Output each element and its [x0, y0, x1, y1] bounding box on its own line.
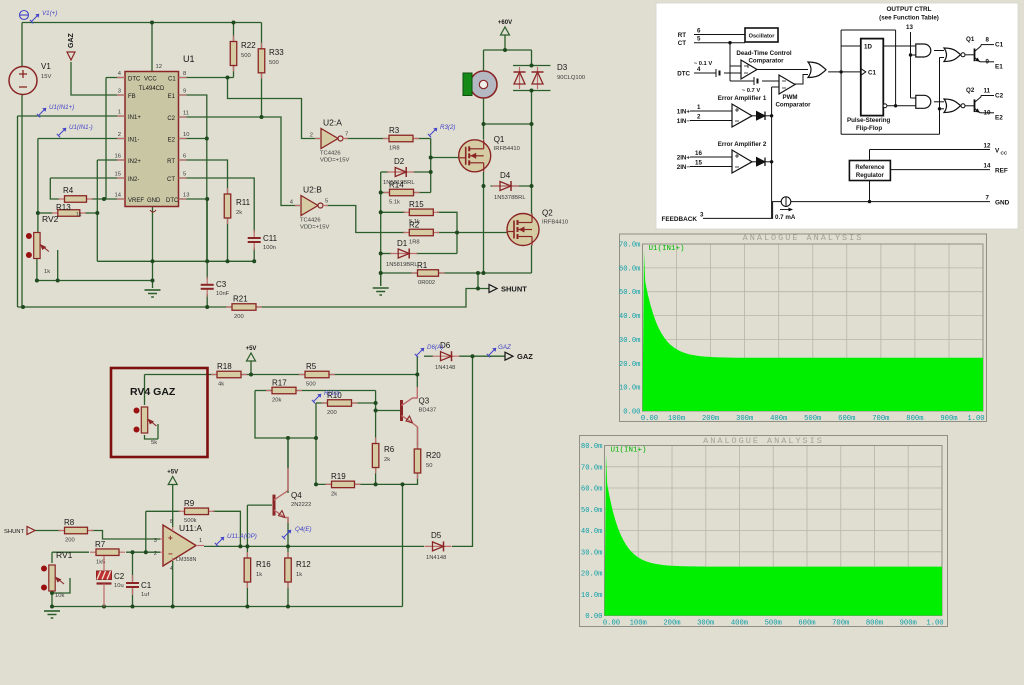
diode D5 [425, 531, 452, 561]
wire Q4 base [247, 504, 272, 506]
wire to NOR1 lower input [940, 57, 945, 59]
svg-text:R2: R2 [409, 221, 420, 230]
wire Q3 emitter link [413, 423, 418, 445]
diode D3 left [514, 67, 526, 89]
svg-text:2: 2 [154, 551, 157, 557]
wire bottom loop [841, 133, 939, 135]
svg-text:+60V: +60V [498, 20, 512, 26]
svg-text:U11:A: U11:A [179, 523, 202, 533]
junction gnd rail R11 [226, 259, 230, 263]
battery ~0.1V [694, 61, 720, 77]
diode D2 [383, 157, 415, 186]
svg-text:R22: R22 [241, 41, 256, 50]
wire Q1 emitter pin 9 [980, 61, 994, 63]
resistor R14 [384, 181, 420, 206]
resistor R9 [179, 499, 215, 524]
wire R6 bottom lead [375, 468, 377, 485]
wire NOR1 to Q1 base [965, 54, 975, 56]
svg-text:Q3: Q3 [419, 397, 430, 406]
svg-text:C2: C2 [167, 116, 175, 122]
svg-text:FEEDBACK: FEEDBACK [661, 216, 697, 223]
svg-text:DTC: DTC [128, 76, 141, 82]
svg-text:1k: 1k [44, 269, 50, 275]
probe label U11.A(OP) [215, 533, 257, 546]
svg-text:ANALOGUE ANALYSIS: ANALOGUE ANALYSIS [703, 436, 824, 446]
wire RV1 wiper strap [52, 578, 70, 593]
ground bottom left [44, 611, 60, 618]
IC U1 TL494CD body [125, 54, 195, 207]
svg-text:200: 200 [65, 538, 75, 544]
svg-text:50: 50 [426, 463, 432, 469]
svg-text:CC: CC [1001, 151, 1008, 156]
ground below U1 [145, 290, 161, 297]
wire diode1 to bus [765, 115, 772, 117]
svg-text:12: 12 [984, 143, 991, 150]
svg-text:13: 13 [183, 193, 189, 199]
wire 2IN+ line [690, 156, 732, 158]
dead-time control comparator [741, 60, 757, 79]
svg-text:2k: 2k [384, 457, 390, 463]
capacitor C1 [126, 575, 152, 598]
junction R9 output node [238, 544, 242, 548]
junction Q3 base node [374, 409, 378, 413]
wire oscillator output down [729, 43, 731, 81]
junction C1 bottom rail [131, 605, 135, 609]
reference regulator box [849, 161, 890, 181]
wire OR out to FF clock [828, 71, 861, 73]
resistor R5 [299, 362, 335, 388]
svg-text:1N5819BRL: 1N5819BRL [386, 262, 418, 268]
junction +5V rail2 [249, 373, 253, 377]
svg-text:300m: 300m [697, 620, 714, 628]
wire R13 right [85, 212, 97, 214]
wire U2:A out to R3 [345, 138, 387, 140]
wire R9 feedback left [145, 511, 147, 552]
svg-text:TC4426: TC4426 [320, 151, 341, 157]
wire C2 top lead [103, 552, 105, 556]
svg-text:D4: D4 [500, 171, 511, 180]
OR gate dead-time/PWM [808, 62, 826, 78]
wire V1 top lead [21, 23, 23, 67]
wire Q4 collector upper [287, 438, 289, 468]
svg-text:1N5378BRL: 1N5378BRL [494, 195, 526, 201]
svg-text:10.0m: 10.0m [619, 385, 641, 393]
wire D3 anode bus [513, 90, 551, 92]
svg-text:7: 7 [345, 132, 348, 138]
svg-text:V: V [995, 148, 1000, 155]
svg-text:9: 9 [986, 59, 990, 66]
wire R19 row to ground rail [402, 484, 404, 606]
wire U2:B out to R2 [326, 206, 406, 233]
svg-text:REF: REF [995, 168, 1008, 175]
junction R6 bottom [374, 482, 378, 486]
wire R14 left [381, 192, 389, 194]
svg-text:5: 5 [697, 36, 701, 43]
wire C1 pin8 to R22 [179, 77, 234, 79]
svg-text:Comparator: Comparator [748, 58, 784, 65]
svg-text:−: − [168, 550, 173, 559]
junction RV2 strap right [56, 279, 60, 283]
svg-text:5.1k: 5.1k [389, 200, 400, 206]
AND gate 2 [916, 95, 931, 108]
svg-text:2k: 2k [331, 492, 337, 498]
wire R10 left lead [316, 402, 327, 404]
junction E1/E2 [205, 137, 209, 141]
wire R15 right down [437, 212, 457, 253]
svg-text:15V: 15V [41, 74, 51, 80]
diode EA1 [757, 112, 766, 121]
battery V1 [9, 62, 51, 95]
wire EA node to PWM - [772, 86, 779, 88]
svg-text:C1: C1 [168, 76, 176, 82]
labels block diagram pins [661, 6, 1009, 223]
wire IN1- down to R13/RV2 [37, 139, 39, 236]
svg-text:OUTPUT CTRL: OUTPUT CTRL [886, 6, 931, 13]
svg-text:Q2: Q2 [542, 209, 553, 218]
transistor Q2 IRFB4410 [507, 209, 568, 246]
NOR gate 1 [944, 48, 965, 62]
svg-text:4k: 4k [218, 382, 224, 388]
svg-text:GAZ: GAZ [68, 33, 75, 49]
wire C3 top lead [206, 261, 208, 279]
junction D2 right node [429, 170, 433, 174]
probe label R(10) [312, 390, 340, 403]
wire to DTC comparator + [730, 65, 741, 67]
svg-text:R15: R15 [409, 200, 424, 209]
junction C2 bottom rail [102, 605, 106, 609]
svg-text:200m: 200m [663, 620, 680, 628]
svg-text:0.00: 0.00 [603, 620, 620, 628]
wire R17-left down and right [255, 391, 316, 439]
wire RV4 pot top lead [144, 375, 146, 406]
wire shunt node vertical [477, 273, 479, 289]
svg-text:200: 200 [234, 314, 244, 320]
junction R19 left node [314, 482, 318, 486]
pulse-steering flip-flop box [861, 39, 887, 116]
svg-text:100m: 100m [630, 620, 647, 628]
svg-text:R1: R1 [417, 261, 428, 270]
wire R9 left lead [146, 510, 181, 512]
label RV4 GAZ [130, 386, 176, 398]
wire FF Qbar to AND2 [887, 105, 916, 107]
svg-text:900m: 900m [900, 620, 917, 628]
wire Q4 emitter link [285, 518, 288, 524]
svg-text:0.00: 0.00 [623, 409, 640, 417]
wire R22 bottom lead [233, 64, 235, 78]
capacitor C3 [201, 277, 230, 297]
svg-text:R3(2): R3(2) [440, 124, 455, 131]
svg-text:13: 13 [906, 24, 913, 31]
ground driver cluster [373, 288, 389, 295]
wire C3 bottom lead [206, 294, 208, 307]
label error amplifier 2 [718, 141, 767, 148]
wire EA1 to diode [752, 115, 757, 117]
svg-text:15: 15 [695, 160, 702, 167]
label dead-time control comparator [736, 50, 792, 65]
svg-text:10k: 10k [55, 593, 64, 599]
wire Q4 emitter down [287, 517, 289, 546]
analysis graph 2 x axis labels [603, 620, 944, 628]
wire motor / D3 link [484, 123, 532, 125]
wire R12 bottom lead [287, 581, 289, 607]
wire FEEDBACK line [703, 202, 773, 219]
junction Q4C riser [286, 436, 290, 440]
wire RV2 bottom lead [36, 256, 38, 281]
svg-text:Q2: Q2 [966, 87, 975, 94]
wire D5 out up to GAZ [452, 356, 473, 546]
wire IN2+ pin16 [97, 159, 125, 161]
svg-text:RT: RT [678, 32, 686, 39]
resistor R13 [52, 203, 86, 216]
svg-text:1IN+: 1IN+ [677, 109, 691, 116]
svg-text:900m: 900m [940, 415, 957, 423]
svg-text:R33: R33 [269, 48, 284, 57]
svg-text:20k: 20k [272, 398, 281, 404]
diode D6 [433, 341, 460, 371]
resistor R6 [372, 438, 394, 474]
oscillator box [745, 28, 778, 42]
svg-text:40.0m: 40.0m [581, 528, 603, 536]
svg-text:U1(IN1+): U1(IN1+) [611, 447, 647, 455]
wire op-amp output row / D5 left [204, 545, 424, 547]
wire op-amp +5V stub [172, 485, 174, 528]
wire DTC comp out to OR [756, 69, 808, 71]
analysis graph 1 trace U1(IN1+) [643, 251, 984, 411]
wire IN2+ down [96, 160, 98, 261]
wire R11 bottom lead [227, 218, 229, 261]
wire RV4 to R18 [145, 374, 217, 376]
svg-text:C1: C1 [868, 70, 876, 77]
junction R10 right node [374, 401, 378, 405]
svg-text:IN2+: IN2+ [128, 159, 141, 165]
resistor R20 [414, 443, 441, 479]
svg-text:800m: 800m [866, 620, 883, 628]
probe label R3(2) [428, 124, 456, 137]
probe label D6(A) [415, 344, 443, 357]
wire FF feedback top [841, 29, 896, 31]
junction GAZ node [471, 354, 475, 358]
wire C1 top lead [132, 552, 134, 581]
svg-text:U1(IN1+): U1(IN1+) [49, 104, 74, 111]
wire motor bottom to Q1 drain [483, 98, 485, 140]
wire mid ground rail [97, 260, 254, 262]
U1 pin stubs and numbers [115, 71, 190, 212]
svg-text:Reference: Reference [855, 165, 885, 171]
svg-text:600m: 600m [798, 620, 815, 628]
svg-text:FB: FB [128, 94, 136, 100]
junction gnd rail C3 [205, 259, 209, 263]
svg-text:100m: 100m [668, 415, 685, 423]
wire CT to oscillator [694, 42, 745, 44]
svg-text:R14: R14 [389, 181, 404, 190]
wire R10-left down to R19 [315, 403, 317, 484]
wire V1 bottom lead [21, 95, 23, 308]
wire Q4 collector link [285, 468, 288, 493]
svg-text:Oscillator: Oscillator [749, 34, 776, 40]
wire up to D6 [416, 356, 418, 374]
wire left bus of driver cluster [380, 172, 382, 286]
wire +60V stub [504, 35, 506, 50]
wire Q3 emitter to R20 [417, 427, 419, 450]
wire R17 left [255, 390, 271, 392]
svg-text:C2: C2 [114, 572, 125, 581]
junction shunt tap [476, 271, 480, 275]
junction Q3 collector node [415, 373, 419, 377]
svg-text:1: 1 [199, 538, 202, 544]
svg-text:R11: R11 [236, 198, 251, 207]
probe label GAZ [487, 344, 511, 357]
svg-text:Pulse-Steering: Pulse-Steering [847, 117, 891, 124]
svg-text:U2:B: U2:B [303, 185, 322, 195]
TL494 functional block diagram panel [656, 3, 1018, 229]
svg-text:5: 5 [183, 172, 186, 178]
svg-text:30.0m: 30.0m [619, 337, 641, 345]
wire diode2 to bus [765, 161, 772, 163]
wire osc to PWM battery [730, 80, 754, 82]
resistor R8 [59, 518, 94, 544]
svg-text:7: 7 [986, 195, 990, 202]
wire DTC pin13 down [179, 199, 208, 261]
svg-text:70.0m: 70.0m [619, 242, 641, 250]
wire error amp bus vertical [771, 87, 773, 218]
junction gnd rail C11 [252, 259, 256, 263]
junction R15 left node [379, 210, 383, 214]
wire Q2 source down [531, 246, 533, 274]
junction EA2 out [770, 160, 773, 163]
svg-text:GAZ: GAZ [517, 352, 533, 361]
svg-text:LM358N: LM358N [176, 557, 196, 563]
wire C11 bottom lead [253, 248, 255, 262]
wire D6 left lead [424, 355, 433, 357]
svg-text:VDD=+15V: VDD=+15V [300, 225, 329, 231]
resistor R1 [412, 261, 445, 286]
svg-text:2: 2 [697, 114, 701, 121]
svg-text:0.7 mA: 0.7 mA [775, 214, 796, 221]
resistor R3 [383, 126, 419, 152]
junction VCC rail [150, 21, 154, 25]
svg-text:Q4(E): Q4(E) [295, 526, 312, 533]
svg-text:11: 11 [984, 88, 991, 95]
svg-text:R6: R6 [384, 445, 395, 454]
wire D3 to Q2 drain [531, 91, 533, 214]
analysis graph 2 trace U1(IN1+) [605, 454, 943, 616]
svg-text:R5: R5 [306, 362, 317, 371]
svg-text:600m: 600m [838, 415, 855, 423]
svg-text:14: 14 [115, 193, 122, 199]
svg-text:14: 14 [984, 163, 991, 170]
svg-text:2N2222: 2N2222 [291, 502, 311, 508]
wire R8 to op-amp pin3 [91, 531, 160, 540]
svg-text:TC4426: TC4426 [300, 218, 321, 224]
junction R19 row gnd drop [401, 482, 405, 486]
wire IN2- pin15 [50, 177, 125, 179]
svg-text:500: 500 [241, 53, 251, 59]
svg-text:ANALOGUE ANALYSIS: ANALOGUE ANALYSIS [743, 233, 864, 243]
svg-text:3: 3 [118, 89, 121, 95]
wire +60V rail [484, 49, 532, 51]
analysis graph 1 panel [620, 234, 987, 422]
wire R15 left [381, 211, 406, 213]
junction RV2 strap left [35, 279, 39, 283]
junction pin13 corner [205, 197, 209, 201]
output transistor Q1 [966, 36, 981, 62]
NOR gate 2 [944, 99, 965, 113]
svg-text:BD437: BD437 [419, 408, 437, 414]
wire R19 row [316, 473, 418, 484]
svg-text:R7: R7 [95, 540, 106, 549]
junction R9 feedback node [144, 550, 148, 554]
terminal SHUNT in [4, 527, 35, 536]
svg-text:D3: D3 [557, 63, 568, 72]
terminal SHUNT out [489, 285, 527, 294]
svg-text:V1: V1 [41, 62, 51, 71]
probe label V1(+) [30, 10, 58, 23]
AND gate 1 [916, 44, 931, 57]
svg-text:8: 8 [170, 519, 173, 525]
svg-text:~ 0.7 V: ~ 0.7 V [742, 88, 761, 94]
wire RV4 pot bottom strap [145, 435, 159, 439]
resistor R7 [90, 540, 125, 566]
terminal GAZ top [67, 33, 75, 61]
svg-text:800m: 800m [906, 415, 923, 423]
junction osc out [728, 41, 731, 44]
svg-text:DTC: DTC [166, 198, 179, 204]
svg-text:1: 1 [118, 110, 121, 116]
wire VCC to ref reg [869, 150, 871, 161]
junction motor bottom [482, 122, 486, 126]
wire DTC to VREF vertical [105, 78, 107, 200]
resistor R11 [224, 188, 250, 224]
wire RV1 top lead [51, 552, 53, 563]
resistor R18 [211, 362, 247, 388]
svg-text:90CLQ100: 90CLQ100 [557, 75, 585, 81]
svg-text:CT: CT [167, 177, 175, 183]
junction D4 left [482, 184, 486, 188]
svg-text:U1(IN1-): U1(IN1-) [69, 124, 93, 131]
svg-text:50.0m: 50.0m [619, 289, 641, 297]
svg-text:TL494CD: TL494CD [139, 86, 165, 92]
svg-text:IN2-: IN2- [128, 177, 139, 183]
potentiometer RV1 [41, 565, 64, 599]
svg-text:E2: E2 [995, 115, 1003, 122]
svg-text:V1(+): V1(+) [42, 10, 57, 17]
wire R4 to VREF pin14 [92, 198, 125, 200]
capacitor C2 polarized [97, 556, 125, 607]
svg-text:Q4: Q4 [291, 491, 302, 500]
current source 0.7mA [775, 197, 796, 221]
svg-text:10u: 10u [114, 583, 124, 589]
wire R16 bottom lead [246, 581, 248, 607]
svg-text:0.00: 0.00 [585, 613, 602, 621]
svg-text:U11.A(OP): U11.A(OP) [227, 533, 257, 540]
wire R9 right down [213, 511, 241, 546]
junction IN1-/R13 [36, 211, 40, 215]
error amplifier 2 [732, 150, 752, 173]
wire Q3 base [376, 410, 400, 412]
svg-text:1: 1 [697, 104, 701, 111]
svg-text:D2: D2 [394, 157, 405, 166]
wire REF line [890, 169, 990, 171]
junction op-amp V- rail [171, 605, 175, 609]
junction R1 left node [379, 271, 383, 275]
probe label U1(IN1+) [37, 104, 74, 117]
wire bottom return rail [18, 289, 490, 308]
wire RT to oscillator [694, 34, 745, 36]
svg-text:400m: 400m [770, 415, 787, 423]
wire RV4 strap vertical [157, 424, 159, 439]
wire gnd to RV2 strap rail [37, 280, 153, 282]
junction D3 bus link [530, 122, 534, 126]
